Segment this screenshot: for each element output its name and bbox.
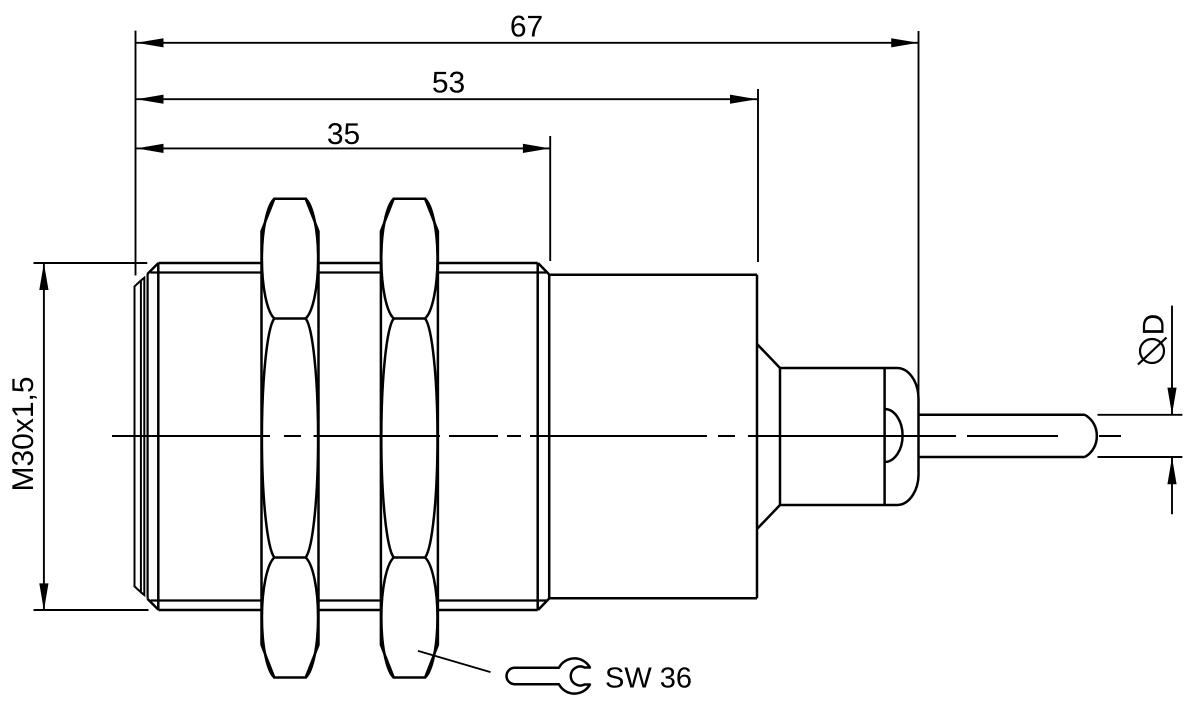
sensing face cap line 2 bbox=[140, 281, 142, 593]
thread end vertical bbox=[536, 263, 539, 610]
nut 2 silhouette bbox=[381, 199, 438, 678]
arrow dia D down bbox=[1167, 388, 1176, 415]
extension line 53 right bbox=[757, 89, 759, 262]
nut 1 waist line lower bbox=[274, 556, 305, 559]
svg-text:M30x1,5: M30x1,5 bbox=[7, 376, 40, 491]
dia D dimension line upper segment bbox=[1171, 306, 1173, 415]
svg-text:35: 35 bbox=[327, 118, 360, 151]
thread root top line bbox=[151, 271, 548, 273]
thread outer top line bbox=[158, 262, 537, 265]
extension line 35 right bbox=[549, 136, 551, 261]
smooth body top line bbox=[549, 273, 757, 276]
body right edge bbox=[756, 275, 759, 599]
sensing face cap line 3 bbox=[141, 278, 144, 595]
cable bore semicircle bbox=[885, 409, 903, 462]
nut 2 waist line upper bbox=[394, 317, 425, 320]
M30 dimension vertical line bbox=[43, 263, 45, 610]
nut 2 middle face barrel arcs bbox=[381, 319, 437, 558]
cable bottom line bbox=[919, 456, 1085, 459]
arrow 35 right bbox=[523, 144, 550, 153]
arrow M30 bottom bbox=[39, 583, 48, 610]
smooth body bottom line bbox=[549, 597, 757, 600]
nut 2 bottom face barrel arcs bbox=[381, 558, 437, 678]
dimension 53 line bbox=[137, 98, 758, 100]
nut 2 waist line lower bbox=[394, 556, 425, 559]
sensing face cap left outline bbox=[135, 281, 141, 593]
gland joint vertical bbox=[883, 368, 886, 505]
svg-text:D: D bbox=[1138, 314, 1171, 336]
dia D dimension line lower segment bbox=[1171, 457, 1173, 514]
cable rounded tip bbox=[1085, 415, 1097, 457]
cone base vertical bbox=[779, 368, 782, 505]
thread outer bottom line bbox=[158, 609, 537, 612]
thread root bottom line bbox=[151, 599, 548, 601]
extension line 67 right bbox=[918, 31, 920, 400]
nut 1 waist line upper bbox=[274, 317, 305, 320]
svg-text:53: 53 bbox=[432, 67, 465, 100]
arrow 35 left bbox=[137, 144, 164, 153]
gland bottom line bbox=[780, 504, 897, 507]
arrow 67 right bbox=[891, 38, 918, 47]
cone slants to gland bbox=[757, 344, 780, 529]
nut 2 top face barrel arcs bbox=[381, 199, 437, 319]
diameter symbol slash bbox=[1138, 338, 1167, 365]
M30 extension line bottom bbox=[34, 609, 149, 611]
nut 1 middle face barrel arcs bbox=[262, 319, 318, 558]
dimension 35 line bbox=[137, 147, 550, 149]
gland end cap rounded bbox=[897, 368, 919, 505]
extension line left (face) bbox=[135, 31, 137, 276]
arrow dia D up bbox=[1167, 457, 1176, 484]
nut 1 silhouette bbox=[262, 199, 319, 678]
M30 extension line top bbox=[34, 262, 148, 264]
nut 1 top face barrel arcs bbox=[262, 199, 318, 319]
diameter symbol circle bbox=[1138, 338, 1167, 365]
arrow 67 left bbox=[137, 38, 164, 47]
arrow 53 right bbox=[730, 95, 757, 104]
leader line SW36 bbox=[418, 651, 491, 672]
cable top line bbox=[919, 414, 1085, 417]
thread end chamfer slants bbox=[538, 263, 549, 610]
body left chamfer vertical bbox=[147, 274, 149, 599]
arrow M30 top bbox=[39, 263, 48, 290]
dia D extension line top bbox=[1098, 414, 1183, 416]
dia D extension line bottom bbox=[1098, 456, 1183, 458]
svg-text:SW 36: SW 36 bbox=[605, 663, 692, 695]
body left chamfer slants bbox=[147, 263, 158, 610]
nut 1 bottom face barrel arcs bbox=[262, 558, 318, 678]
shank face vertical bbox=[548, 275, 551, 599]
thread face vertical bbox=[157, 263, 160, 610]
arrow 53 left bbox=[137, 95, 164, 104]
centerline axis dash-dot bbox=[112, 435, 1121, 437]
wrench icon bbox=[507, 658, 590, 693]
gland top line bbox=[780, 367, 897, 370]
svg-text:67: 67 bbox=[510, 11, 543, 44]
